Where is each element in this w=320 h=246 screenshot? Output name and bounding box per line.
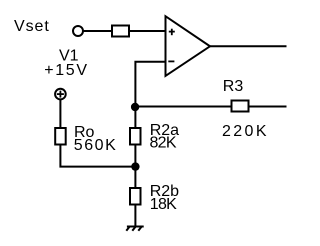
svg-text:+15V: +15V <box>44 62 87 79</box>
svg-text:18K: 18K <box>150 196 177 213</box>
svg-text:220K: 220K <box>222 123 267 140</box>
svg-text:82K: 82K <box>150 135 177 152</box>
svg-text:560K: 560K <box>74 137 116 154</box>
svg-text:Vset: Vset <box>14 18 49 35</box>
svg-text:R3: R3 <box>223 78 244 95</box>
